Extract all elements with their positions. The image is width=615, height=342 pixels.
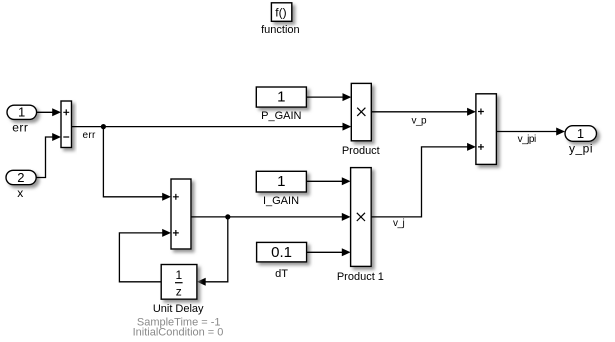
svg-text:x: x — [17, 186, 24, 200]
svg-text:Product: Product — [342, 145, 380, 157]
sum block S2 (integrator accumulator) — [171, 179, 191, 249]
svg-text:v_jpi: v_jpi — [518, 134, 536, 145]
svg-text:1: 1 — [18, 105, 25, 120]
svg-text:v_p: v_p — [412, 116, 428, 127]
svg-text:1: 1 — [175, 268, 182, 282]
Product1 block — [351, 168, 372, 267]
svg-text:err: err — [12, 120, 28, 134]
wire inport2 to S1 minus — [36, 133, 61, 178]
svg-text:2: 2 — [17, 170, 24, 185]
svg-text:InitialCondition = 0: InitialCondition = 0 — [133, 327, 224, 339]
sum block S1 (err - x) — [61, 101, 72, 148]
constant I_GAIN — [256, 171, 306, 192]
svg-text:I_GAIN: I_GAIN — [263, 195, 299, 207]
wire Product1 out to S3 in2, label v_j — [371, 143, 476, 217]
constant dT — [257, 242, 307, 262]
svg-text:function: function — [261, 24, 300, 36]
svg-text:1: 1 — [277, 173, 285, 190]
svg-text:v_j: v_j — [393, 218, 405, 229]
Product block — [351, 83, 371, 140]
svg-text:Unit Delay: Unit Delay — [153, 303, 204, 315]
wire I_GAIN to Product1 in1 — [306, 177, 350, 185]
wire err branch down to S2 — [103, 127, 171, 201]
svg-text:1: 1 — [277, 89, 285, 106]
svg-text:Product 1: Product 1 — [337, 271, 384, 283]
svg-text:z: z — [176, 284, 182, 298]
Unit Delay block — [161, 265, 197, 300]
wire Product to S3 in1, label v_p — [371, 108, 476, 116]
junction node err — [101, 124, 106, 129]
wire Unit Delay out feedback to S2 in2 — [119, 229, 171, 282]
wire inport1 to S1 — [37, 108, 61, 116]
junction node S2 out — [225, 214, 230, 219]
svg-text:err: err — [83, 130, 96, 141]
wire S3 out to outport, label v_jpi — [496, 128, 565, 136]
inport 2 x — [6, 170, 36, 185]
wire dT to Product1 in3 — [307, 248, 351, 256]
inport 1 err — [7, 105, 37, 120]
svg-text:P_GAIN: P_GAIN — [261, 110, 301, 122]
svg-text:1: 1 — [577, 126, 584, 141]
wire S2 out to Product1 in2 — [191, 213, 351, 221]
function block U_f — [271, 3, 291, 22]
sum block S3 (v_p + v_j) — [476, 94, 497, 165]
wire P_GAIN to Product in1 — [306, 93, 351, 101]
constant P_GAIN — [256, 87, 306, 107]
wire branch down to Unit Delay input — [197, 217, 228, 286]
outport 1 y_pi — [565, 126, 597, 142]
svg-text:y_pi: y_pi — [569, 142, 593, 156]
svg-text:0.1: 0.1 — [271, 244, 292, 261]
svg-text:f(): f() — [275, 6, 286, 20]
wire S1 output err to Product in2 — [72, 123, 352, 131]
svg-text:dT: dT — [275, 268, 288, 280]
